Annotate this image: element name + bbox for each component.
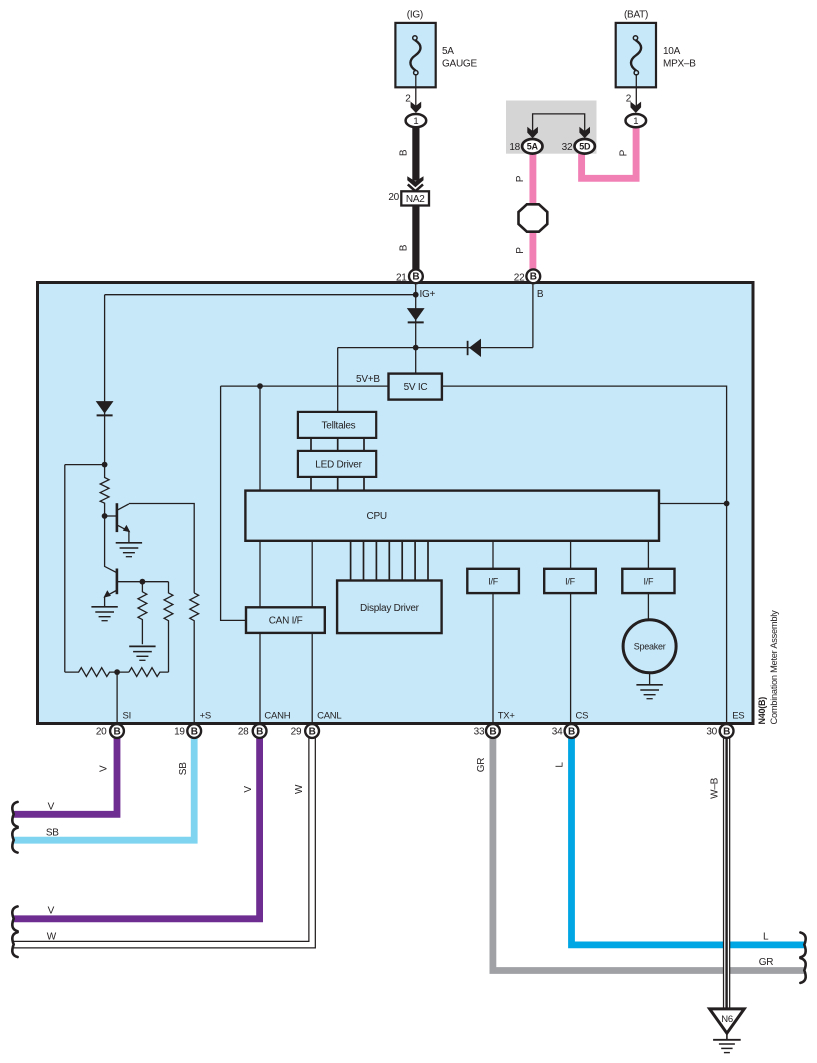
connector octagon [519,204,548,231]
wire 5V+B left run [221,385,389,387]
svg-text:Combination Meter Assembly: Combination Meter Assembly [769,610,779,725]
svg-text:V: V [99,765,110,772]
resistor R3 [164,582,173,672]
wire pin21 to 5V IC vertical [415,283,417,374]
pin 30 circle B [720,724,734,738]
node junction ES [724,501,730,507]
wire I/F 3 to speaker [647,593,649,620]
svg-text:+S: +S [200,710,211,721]
connector arrow into oval 5D [579,127,590,138]
svg-text:CS: CS [576,710,589,721]
svg-text:CAN I/F: CAN I/F [269,616,303,627]
pin 33 circle B [486,724,500,738]
connector arrow into oval 1 (IG) [411,102,422,113]
pigtail W left [12,932,17,957]
svg-text:TX+: TX+ [498,710,516,721]
svg-text:(BAT): (BAT) [624,10,648,21]
wire pin22 B vertical inside [532,283,534,348]
svg-text:29: 29 [291,727,302,738]
block I/F 3 [622,569,674,593]
block LED Driver [298,451,376,477]
svg-text:(IG): (IG) [407,10,423,21]
pin 22 circle B [526,269,540,283]
connector arrow into oval 5A [527,127,538,138]
svg-text:20: 20 [96,727,107,738]
regulator 5V IC [389,374,442,400]
diode D1 [407,308,425,322]
svg-text:B: B [412,272,419,283]
ground R2 [129,646,155,660]
svg-text:22: 22 [514,272,525,283]
svg-text:32: 32 [562,142,573,153]
svg-text:SB: SB [178,762,189,775]
wires Telltales to LED Driver [311,438,364,451]
wire telltales drop vertical [337,348,339,412]
connector oval 5D [575,139,595,154]
wire IG+ horizontal [105,294,416,296]
svg-text:Display Driver: Display Driver [360,603,420,614]
svg-text:B: B [530,272,537,283]
svg-text:SB: SB [46,828,59,839]
ground point N6 triangle [710,1009,745,1033]
svg-text:NA2: NA2 [406,194,425,205]
svg-text:5V IC: 5V IC [404,382,428,393]
pigtail V left [12,802,17,827]
node junction 5V+B [257,383,263,389]
wire CANL CPU to CAN I/F [311,541,313,608]
wire Q1 base junction down to Q2 collector [105,516,117,572]
svg-text:SI: SI [123,710,131,721]
wire CPU to I/F 3 [647,541,649,569]
connector NA2 [401,191,429,205]
svg-text:18: 18 [509,142,520,153]
wire L from pin 34 [572,737,805,945]
pin 19 circle B [187,724,201,738]
svg-text:W: W [47,932,57,943]
splice double chevron on wire B [405,176,426,191]
svg-text:V: V [243,786,254,793]
svg-text:Speaker: Speaker [634,642,666,652]
svg-text:P: P [515,247,526,254]
wire from fuse F1 to connector [415,74,417,107]
svg-text:I/F: I/F [565,576,576,586]
speaker [623,620,676,673]
node junction left [102,462,108,468]
svg-text:N40(B): N40(B) [757,697,767,725]
node junction IG+ [413,292,419,298]
wire CPU to I/F 2 [570,541,572,569]
wire Q2 base horizontal [118,581,169,583]
diode D3 [96,401,114,415]
pigtail SB left [12,828,17,853]
svg-text:GR: GR [476,758,487,773]
svg-text:V: V [48,801,55,812]
wire CANH to pin 28 [259,633,261,724]
wire outer left vertical [64,465,66,672]
pigtail L right [800,933,805,958]
connector arrow into oval 1 (BAT) [631,102,642,113]
transistor Q2 [103,569,117,598]
ground speaker [636,685,662,699]
svg-text:B: B [309,726,316,737]
connector oval 1 (IG) [406,114,427,127]
wire I/F 2 to pin 34 [570,593,572,723]
fuse F1 5A GAUGE body [395,23,435,87]
block Telltales [298,412,376,438]
fuse F2 10A MPX-B body [616,23,656,87]
resistor R1 [100,465,109,516]
svg-text:B: B [256,726,263,737]
wire W from pin 29 [13,736,313,945]
wire from fuse F2 to connector [635,74,637,107]
svg-text:V: V [48,906,55,917]
wire V from pin 20 [14,737,118,814]
ground Q2 [91,607,117,621]
wire CANH CPU to CAN I/F [259,541,261,608]
pin 29 circle B [305,724,319,738]
svg-text:GR: GR [759,957,774,968]
wire CANL to pin 29 [311,633,313,724]
node junction D1-D2 [413,345,419,351]
svg-text:20: 20 [388,192,399,203]
svg-text:10A: 10A [663,46,681,57]
svg-text:I/F: I/F [488,576,499,586]
block Display Driver [337,581,442,634]
svg-text:2: 2 [405,93,411,104]
svg-text:B: B [723,726,730,737]
wire Q1 emitter down [128,531,130,543]
svg-text:CANH: CANH [264,710,290,721]
wires LED Driver to CPU [311,477,364,491]
pin 34 circle B [565,724,579,738]
wire 5V IC right to ES vertical [442,386,727,723]
svg-text:28: 28 [238,727,249,738]
svg-text:W: W [294,784,305,794]
resistor R5 horizontal [65,668,129,677]
resistor R2 [138,582,147,645]
wire W-B from pin 30 to N6 [723,736,730,1009]
pigtail V2 left [12,906,17,931]
wire CPU right to ES [659,503,727,505]
wire junction to CPU top [259,386,261,491]
svg-text:GAUGE: GAUGE [442,58,477,69]
resistor R6 horizontal [129,668,169,677]
svg-text:P: P [618,149,629,156]
wire speaker to ground [649,673,651,685]
wire bridge inside J/B [533,114,585,132]
block I/F 1 [467,569,519,593]
svg-text:MPX–B: MPX–B [663,58,696,69]
pin 28 circle B [253,724,267,738]
svg-text:IG+: IG+ [420,289,436,300]
svg-text:W–B: W–B [710,777,721,799]
wire N6 to ground [726,1033,728,1039]
wire Q2 emitter down [104,597,106,607]
svg-text:5D: 5D [579,142,591,152]
node junction Q2 base [140,579,146,585]
svg-text:19: 19 [174,727,185,738]
svg-text:34: 34 [552,727,563,738]
wire left branch vertical from IG+ [104,295,106,465]
svg-text:30: 30 [706,727,717,738]
svg-text:B: B [489,726,496,737]
svg-text:CANL: CANL [317,710,341,721]
ground Q1 [116,543,142,557]
pin 21 circle B [409,269,423,283]
wire SB from pin 19 [14,737,195,840]
svg-text:B: B [191,726,198,737]
node junction SI [114,669,120,675]
wire P pin 22 vertical [529,150,536,270]
connector oval 1 (BAT) [626,114,647,127]
svg-text:B: B [537,289,544,300]
svg-text:N6: N6 [721,1014,733,1025]
junction block J/B gray box [506,101,597,154]
wire Q1 collector to +S [129,504,194,593]
block CPU [245,491,659,541]
svg-text:CPU: CPU [367,511,387,522]
svg-text:1: 1 [633,116,638,127]
svg-text:B: B [568,726,575,737]
wire GR from pin 33 [493,737,805,971]
svg-text:5V+B: 5V+B [356,374,380,385]
wire B thick from fuse IG to pin 21 [412,125,419,272]
svg-text:Telltales: Telltales [322,420,356,431]
svg-text:1: 1 [413,116,418,127]
wire CPU to I/F 1 [492,541,494,569]
svg-text:21: 21 [396,272,407,283]
svg-text:B: B [114,726,121,737]
svg-text:5A: 5A [527,142,539,152]
wire SI to pin 20 [116,672,118,723]
wire V from pin 28 [14,737,260,919]
svg-text:ES: ES [732,710,744,721]
ground N6 [713,1040,741,1053]
svg-text:P: P [515,175,526,182]
svg-text:LED Driver: LED Driver [315,459,362,470]
svg-text:5A: 5A [442,46,454,57]
node junction Q1 base [102,513,108,519]
wire junction to outer left [65,464,105,466]
block CAN I/F [246,607,325,633]
pin 20 circle B [110,724,124,738]
svg-text:B: B [398,149,409,156]
block I/F 2 [544,569,596,593]
combination meter assembly box N40(B) [38,283,754,724]
wire P from fuse BAT to 5D [582,124,637,178]
svg-text:B: B [398,244,409,251]
svg-text:I/F: I/F [644,576,655,586]
connector oval 5A [522,139,542,154]
svg-text:33: 33 [474,727,485,738]
resistor R4 [190,593,199,724]
transistor Q1 [105,503,131,532]
wire junction to telltales branch [338,347,533,349]
svg-text:L: L [763,932,769,943]
wires CPU to Display Driver bus [351,541,428,581]
svg-text:L: L [554,762,565,768]
pigtail GR right [800,958,805,983]
wire CAN I/F supply elbow [221,386,246,620]
diode D2 [468,339,481,357]
wire I/F 1 to pin 33 [492,593,494,723]
